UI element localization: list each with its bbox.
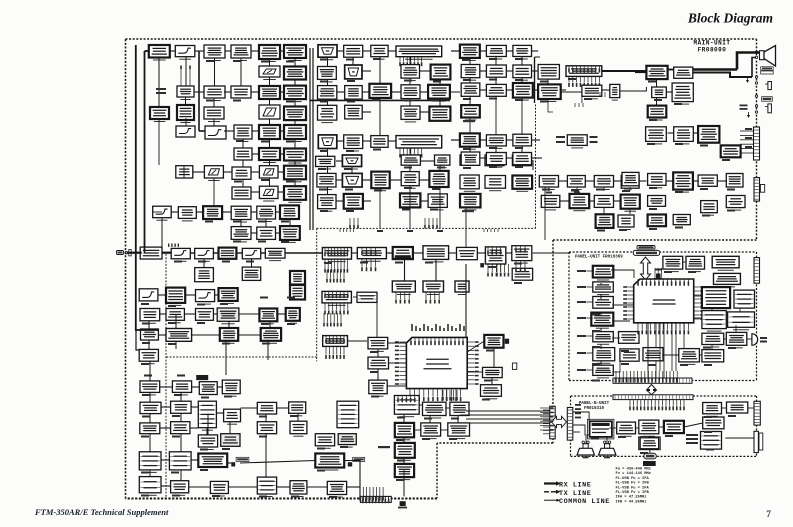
ceramic filter CF1001: [280, 205, 299, 219]
wire dsp drop: [548, 99, 553, 112]
stub cluster below cpu right: [442, 390, 458, 401]
transceiver ic Q1305: [323, 336, 348, 347]
pin stubs below demodulator Q1201: [324, 259, 348, 273]
tcxo X1003: [461, 105, 480, 120]
wire pa row 25: [189, 486, 211, 488]
loop filter Q1075: [401, 65, 420, 81]
legend RX LINE arrow: [544, 481, 561, 486]
key switch matrix S1002: [714, 273, 741, 287]
print head driver Q1060: [290, 271, 305, 287]
label EXT SP JK02: [761, 67, 774, 74]
dc-dc 5v Q1175: [701, 201, 718, 216]
if amplifier Q1017: [231, 227, 251, 242]
frequency note IFA line 7: [616, 496, 647, 500]
wire vertical 83: [600, 294, 602, 299]
pa module Q1440: [198, 454, 227, 468]
pin stubs bottom main cpu: [409, 389, 461, 402]
wire vertical 14: [213, 119, 215, 126]
wire pa row 3: [160, 313, 166, 315]
wire vertical 38: [379, 57, 381, 84]
pin stubs below panel-b strip: [629, 400, 685, 411]
drop af mute: [581, 96, 583, 103]
wire J1603 stub: [573, 431, 580, 433]
rx line seg6: [261, 252, 266, 254]
pin stubs below pll Q1087: [399, 148, 422, 158]
wire pa row 24: [161, 485, 171, 487]
sub-block dashed border horizontal lower: [166, 356, 317, 358]
connector J1004: [760, 185, 764, 193]
trunk vertical left A: [136, 45, 158, 330]
af mute Q1142: [582, 85, 602, 99]
regulator Q1510: [593, 282, 614, 295]
pin stubs above power switch Q1205: [487, 247, 501, 255]
antenna ref Q1436: [338, 434, 356, 447]
drop X1002 to if ic: [465, 207, 467, 247]
wire rx chain 24: [276, 211, 281, 213]
wire vertical 82: [600, 283, 602, 285]
frequency note Fu line 1: [616, 468, 651, 472]
ground G1: [747, 112, 750, 118]
low-pass filter FL1022: [539, 176, 558, 190]
svg-text:Fu = 430-440 MHz: Fu = 430-440 MHz: [616, 468, 651, 472]
caption marks panel: [591, 271, 736, 454]
drop FL1022 down: [544, 187, 546, 240]
wire pa row 12: [192, 386, 200, 388]
wire vertical 35: [327, 167, 329, 174]
wire vco block 5: [337, 91, 345, 93]
low-pass filter FL1021: [485, 176, 506, 191]
pin stubs below Q1310: [395, 292, 410, 304]
frequency note FL-VSB line 5: [616, 486, 650, 490]
wire buffer to vr amp: [620, 87, 647, 91]
wire protect down: [403, 470, 405, 477]
tx rx switch Q1150: [460, 133, 480, 149]
wire tx down: [225, 341, 227, 375]
wire vertical 81: [229, 422, 231, 434]
wire audio row 21: [589, 200, 594, 202]
wire vco block 12: [363, 140, 371, 142]
wire vertical 88: [377, 349, 379, 357]
pin stub forest lower demodulator: [326, 270, 345, 283]
trunk right vertical: [534, 57, 536, 103]
wire vertical 0: [158, 58, 160, 108]
band-pass filter FL1002: [231, 45, 251, 61]
wire vertical 56: [521, 78, 523, 83]
stub cluster below Q1098: [349, 218, 359, 229]
mixer Q1041: [176, 166, 193, 178]
pin stub forest below sub cpu: [323, 313, 342, 327]
tx final Q1445: [257, 477, 276, 496]
wire audio row 20: [560, 200, 570, 202]
drop Q1135 to Q1151: [521, 98, 523, 135]
wire shift to limiter: [450, 91, 460, 93]
wire af row 2: [445, 407, 450, 409]
wire vertical 18: [269, 160, 271, 166]
wire thermo to cpu: [388, 342, 407, 344]
page number 7: [766, 510, 771, 520]
panel cpu to strip a: [647, 323, 649, 378]
wire rx chain 5: [194, 91, 204, 93]
pin stubs above bus strip J1010: [362, 496, 389, 503]
sub modulator Q1422: [199, 382, 217, 395]
caption marks lower pa: [141, 303, 348, 498]
drop Q1051 to FL1005: [185, 118, 187, 126]
bus strip main bottom J1010: [360, 496, 391, 502]
wire pa row 0: [158, 294, 166, 296]
dbm modulator Q1123: [570, 194, 590, 211]
wire audio row 0: [480, 50, 487, 52]
wire rx chain 10: [252, 130, 259, 132]
wire audio row 10: [602, 89, 610, 91]
rx line seg7: [285, 252, 322, 254]
speaker wire +: [693, 68, 737, 71]
dark label MAIN MIC: [196, 375, 208, 380]
tx mute modulator Q1423: [222, 380, 240, 396]
wire vertical 7: [294, 80, 296, 86]
drop converter panel: [735, 325, 737, 332]
charge pump Q1089: [342, 155, 361, 169]
wire rx chain 4: [280, 50, 284, 52]
wire audio row 11: [480, 139, 487, 141]
double arrow main to panel-b: [552, 416, 567, 427]
crystal filter XF1006: [284, 149, 306, 164]
wire vertical 73: [149, 434, 151, 452]
wire vertical 43: [439, 79, 441, 84]
converter Q1111: [512, 155, 531, 166]
audio amplifier Q1121: [621, 176, 639, 189]
tx vco T1010: [139, 452, 161, 473]
label TUNE/OUT left: [556, 136, 565, 143]
wire pa row 14: [161, 406, 171, 408]
memo list M1502: [734, 290, 755, 308]
wire pa row 21: [161, 459, 169, 461]
beep generator Q1164: [648, 106, 667, 120]
wire audio row 29: [717, 180, 726, 182]
mixer Q1034: [259, 148, 280, 163]
frequency note Fv line 2: [616, 472, 651, 476]
main-unit top border: [126, 38, 757, 40]
wire audio row 18: [585, 180, 594, 182]
mixer Q1022: [259, 86, 280, 99]
wire audio row 12: [506, 139, 513, 141]
label LINE tiny: [740, 105, 748, 110]
wire af pa to filter: [668, 69, 674, 71]
drop Q1094 to border: [379, 188, 381, 228]
regulator 5v Q1511: [593, 297, 614, 309]
pll synthesizer Q1067: [396, 46, 442, 59]
amplifier Q1072: [371, 45, 388, 59]
wire pa row 7: [277, 313, 285, 315]
labels left of Q1053: [156, 88, 166, 94]
drop audio row 3: [629, 187, 631, 191]
label PANEL-B-UNIT: [579, 402, 610, 406]
antenna switch Q1151: [513, 134, 532, 146]
dc-dc converter Q1311: [423, 281, 444, 295]
low-pass filter FL1001: [175, 46, 195, 60]
pin stubs right main cpu: [467, 341, 479, 385]
wire vertical 55: [521, 57, 523, 66]
filter FL1040: [698, 175, 717, 186]
pin stubs below dsp modem Q1202: [361, 259, 376, 272]
wire vertical 70: [149, 414, 151, 423]
wire Q1041 in: [176, 166, 184, 178]
crystal filter XF1008: [284, 186, 306, 202]
legend text TX LINE: [559, 490, 591, 498]
panel cpu drop d: [683, 324, 685, 349]
buffer Q1430: [140, 423, 160, 434]
amplifier Q1086: [371, 136, 388, 148]
audio switch Q1167: [698, 126, 719, 143]
pin stubs left main cpu: [395, 341, 407, 385]
sub cpu Q1306: [322, 291, 351, 305]
pin stubs above dc-dc Q1206: [515, 246, 526, 253]
charge pump Q1093: [342, 173, 362, 187]
tick cluster left column: [168, 244, 179, 247]
attenuator ATT5: [259, 186, 278, 201]
svg-text:COMMON LINE: COMMON LINE: [559, 498, 610, 506]
limiter amplifier Q1112: [460, 175, 479, 191]
apc amplifier Q1408: [141, 329, 159, 340]
buffer Q1432: [257, 422, 276, 434]
tcxo X1002: [460, 194, 481, 210]
stub: [535, 56, 541, 58]
pin stubs left panel cpu: [623, 286, 634, 320]
drop memo: [711, 308, 713, 311]
regulator Q1603: [639, 420, 659, 436]
band converter Q1135: [513, 83, 533, 100]
wire vertical 85: [600, 328, 602, 332]
wire pa row 28: [307, 486, 327, 488]
usb protector Q1515: [593, 365, 614, 378]
wire vertical 77: [265, 414, 267, 422]
wire to tx/rx sw 2: [451, 139, 460, 141]
wire vertical 71: [180, 413, 182, 421]
footer FTM-350AR/E Technical Supplement: [34, 507, 169, 517]
wire cpu to gps: [467, 341, 484, 352]
wire pa row 17: [241, 407, 258, 409]
rf amplifier Q1020: [204, 86, 225, 101]
wire vertical 10: [185, 97, 187, 105]
charge regulator Q1335: [448, 423, 470, 439]
wire audio row 6: [480, 89, 487, 91]
wire vco block 0: [337, 50, 344, 52]
wire vertical 45: [409, 148, 411, 155]
shift circuit Q1434: [221, 434, 240, 447]
usb interface Q1307: [357, 292, 377, 302]
wires left panel column: [587, 271, 593, 370]
wire vertical 79: [297, 413, 299, 421]
mixer Q1032: [259, 125, 280, 139]
double arrow lcd: [641, 257, 651, 280]
dual detector Q1409: [166, 329, 192, 342]
svg-text:Block Diagram: Block Diagram: [687, 11, 773, 26]
detect regulator Q1334: [421, 423, 441, 439]
wire protect to cpu: [389, 362, 407, 364]
wire vertical 72: [207, 414, 209, 435]
modulator ic Q1604: [664, 421, 684, 433]
pa driver Q1099: [400, 193, 420, 207]
wire vco block 19: [419, 179, 429, 181]
tx power control Q1405: [217, 308, 239, 324]
buffer Q1088: [316, 156, 335, 169]
wire vco block 16: [336, 179, 342, 181]
wire audio row 13: [532, 139, 541, 141]
loop filter Q1090: [401, 155, 420, 165]
final buffer Q1447: [327, 481, 346, 497]
band-pass filter FL1003: [231, 86, 251, 98]
wire lpf row inject: [153, 211, 162, 213]
mixer Q1012: [259, 45, 280, 62]
vco T1002: [318, 135, 337, 149]
buffer Q1145: [610, 84, 620, 100]
wires to strip J1005: [740, 128, 754, 153]
legend TX LINE arrow: [544, 490, 561, 494]
low-pass filter FL1031: [486, 65, 506, 77]
wire vertical 28: [203, 259, 205, 268]
sub-block dashed border horizontal: [317, 227, 536, 229]
hidden: [639, 337, 694, 339]
lcd unit box: [633, 246, 659, 256]
speaker wire -: [693, 73, 752, 78]
buffer Q1098: [344, 194, 363, 209]
amplifier Q1082: [345, 105, 363, 119]
speaker return wire: [752, 58, 756, 78]
limiter Q1134: [461, 83, 480, 96]
wire det to pill: [649, 450, 651, 453]
dc-dc converter Q1310: [392, 281, 415, 295]
low-pass filter FL1023: [567, 176, 585, 190]
wire cpu to memo 2: [694, 317, 702, 319]
stub below af mute: [575, 103, 583, 107]
wire rx chain 1: [195, 50, 204, 52]
divider Q1095: [401, 172, 419, 189]
pin stubs top panel cpu: [637, 279, 689, 286]
pin stubs above af volume Q1330: [397, 396, 415, 403]
pin stubs above transceiver Q1305: [325, 336, 345, 344]
latch Q1084: [429, 107, 450, 121]
wire pa row 1: [185, 294, 195, 296]
wire audio row 15: [506, 157, 513, 159]
caption marks chain rows: [205, 60, 294, 243]
crystal filter XF1004: [284, 107, 306, 121]
low-pass filter FL1020: [485, 155, 504, 166]
wire dbm row 3: [449, 252, 457, 254]
wire if ic down to cpu: [465, 264, 467, 337]
panel-b-unit top border: [571, 395, 757, 397]
wire codec to sel: [609, 427, 617, 429]
wire audio row 9: [561, 89, 566, 91]
legend text COMMON LINE: [559, 498, 610, 506]
converter Q1141: [538, 65, 559, 80]
wire sel to reg: [636, 427, 639, 429]
svg-text:FL-VSB Fv = IFB: FL-VSB Fv = IFB: [616, 491, 650, 495]
wire vr to protect: [722, 407, 727, 409]
signal amplifier Q1425: [171, 401, 192, 413]
wire vertical 27: [289, 219, 291, 226]
panel cpu drop c: [647, 324, 649, 372]
wire audio row 4: [506, 70, 513, 72]
panel cpu to strip d: [675, 323, 677, 371]
converter Q1153: [513, 153, 532, 165]
wire vco block 11: [337, 140, 344, 142]
if ic Q1200: [457, 247, 478, 259]
wire vertical 68: [149, 392, 151, 402]
wire vertical 46: [409, 165, 411, 171]
dark component near pa module 2: [348, 462, 352, 466]
gps antenna dark: [505, 339, 509, 344]
sub-block dashed border left tall: [165, 254, 167, 498]
jack J1001 EXT SP: [765, 82, 771, 90]
power switch Q1205: [485, 247, 505, 264]
drop FL1032 to FL1033: [495, 96, 497, 135]
wire vertical 65: [228, 321, 230, 328]
wire vertical 67: [149, 361, 151, 381]
labels FL/TX row 2: [260, 297, 295, 299]
wire vco block 17: [362, 179, 371, 181]
audio processor Q1204: [423, 246, 449, 262]
stub cluster above dashed border: [340, 229, 354, 232]
bus vertical 1: [309, 48, 311, 230]
labels near panel-b strips: [575, 404, 581, 418]
transmitter Q1517: [620, 349, 639, 361]
rx line from antenna: [127, 252, 142, 254]
limiter Q1132: [461, 65, 480, 81]
limiter amplifier Q1110: [460, 155, 479, 165]
limiter Q1152: [461, 152, 480, 165]
low-pass filter FL1033: [486, 135, 506, 149]
wire rx chain 15: [223, 171, 232, 173]
wire to tx/rx sw: [451, 50, 460, 52]
wire vco block 9: [362, 111, 371, 113]
pin stubs below Q1311: [425, 292, 440, 304]
low-pass filter FL1011: [171, 248, 190, 261]
fm detector Q1016: [257, 206, 276, 221]
low-pass filter FL1013: [242, 248, 260, 258]
wire vertical 76: [180, 470, 182, 481]
crystal filter XF1001: [284, 45, 306, 61]
antenna connector ANT: [117, 250, 132, 256]
wire vertical 34: [327, 149, 329, 157]
detector Q1050: [150, 107, 169, 122]
wire reg row 1: [414, 429, 421, 431]
audio amplifier Q1331: [423, 402, 447, 418]
squelch Q1120: [594, 176, 613, 190]
buffer Q1073: [318, 67, 337, 82]
stub cluster below Q1099: [424, 218, 438, 229]
wire vertical 40: [409, 57, 411, 65]
wire reg to mod: [659, 426, 664, 428]
volume ic Q1143: [566, 66, 602, 77]
drop ATT3 to det: [213, 178, 215, 206]
wire vco block 4: [420, 70, 431, 72]
sub-block dashed border left: [316, 228, 318, 361]
wire vertical 58: [547, 79, 549, 84]
tx vco T1011: [169, 452, 191, 470]
doubler Q1078: [369, 84, 391, 101]
tick labels row G: [377, 230, 443, 232]
af switch Q1125: [621, 195, 640, 212]
drop Q1050 down: [158, 119, 160, 165]
wire audio row 27: [666, 180, 673, 182]
wire pa row 10: [238, 334, 261, 336]
protector Q1173: [726, 174, 743, 188]
svg-text:Fv = 144-146 MHz: Fv = 144-146 MHz: [616, 472, 651, 476]
wire pa row 9: [192, 334, 220, 336]
bus strip panel bottom J1502: [613, 378, 692, 383]
connector circles on border: [755, 51, 757, 113]
buffer Q1429: [290, 421, 307, 436]
wire vertical 50: [469, 96, 471, 105]
